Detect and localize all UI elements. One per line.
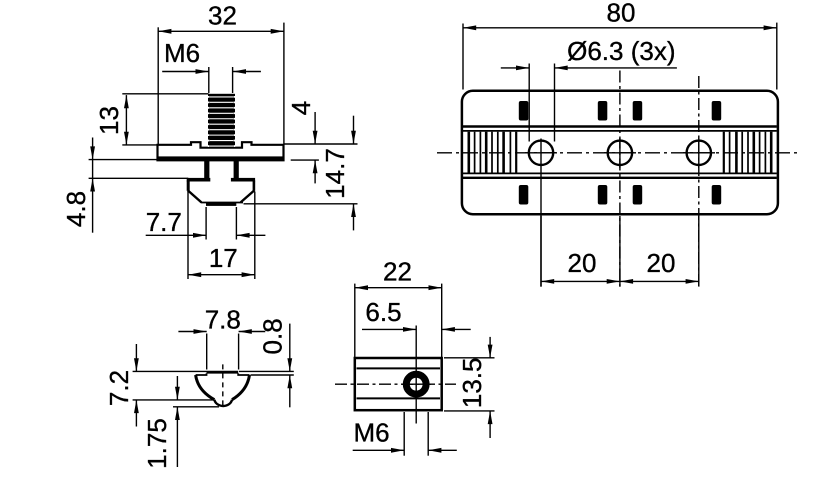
dim 6.3 extension lines (hole1 edges)	[528, 64, 530, 142]
dim 0.8 extension line bottom	[251, 374, 294, 376]
neck left thick wall	[204, 160, 209, 182]
inner chamfer line bottom	[357, 397, 441, 399]
dim 7.2/1.75 extension line (ball top)	[133, 399, 215, 401]
dim 20 extension lines	[540, 216, 542, 287]
hole2 vertical solid segment	[619, 138, 621, 168]
leaf left lip	[196, 373, 207, 375]
dim 17 extension lines	[187, 192, 189, 280]
dim 7.7 extension lines	[205, 207, 207, 240]
slot bottom 2	[598, 185, 608, 205]
svg-text:M6: M6	[164, 38, 200, 68]
inner line lower thin	[463, 172, 777, 174]
dim 32 extension lines	[157, 27, 159, 144]
svg-text:0.8: 0.8	[258, 318, 288, 354]
svg-text:7.7: 7.7	[146, 207, 182, 237]
block outline	[355, 358, 442, 410]
horizontal centerline	[437, 152, 797, 154]
hole horizontal crosshair	[402, 383, 431, 385]
thread edge serration right	[233, 96, 235, 147]
svg-text:4: 4	[286, 101, 316, 115]
dim 1.75 extension line bottom	[173, 406, 219, 408]
dim 80 extension lines	[462, 24, 464, 90]
dim M6 extension lines	[403, 412, 405, 456]
svg-text:80: 80	[607, 0, 636, 28]
hole 2	[608, 141, 632, 165]
leaf right lip	[238, 373, 249, 375]
shoulder right thick bar	[231, 178, 255, 182]
dim 32 line	[158, 30, 284, 32]
leaf bottom ball	[214, 400, 232, 406]
svg-text:7.8: 7.8	[205, 305, 241, 335]
dim 7.8 extension lines	[206, 334, 208, 370]
dim 80 line	[463, 27, 777, 29]
slot bottom 4	[712, 185, 722, 205]
hole2 horizontal crosshair	[604, 152, 636, 154]
slot bottom 1	[519, 185, 529, 205]
slot top 3	[633, 101, 643, 121]
shoulder left thick bar	[187, 178, 211, 182]
svg-text:Ø6.3 (3x): Ø6.3 (3x)	[567, 36, 675, 66]
dim M6 line	[162, 71, 209, 73]
dim 0.8 line	[289, 324, 291, 372]
M6 threaded hole ring	[406, 374, 426, 394]
dim 14.7 line	[353, 116, 355, 144]
svg-text:20: 20	[647, 248, 676, 278]
foot bottom thin line	[201, 202, 243, 204]
dim dia 6.3 line	[501, 67, 529, 69]
foot right chamfer	[241, 190, 255, 202]
dim 13 extension line bottom	[122, 144, 157, 146]
inner chamfer line top	[357, 367, 441, 369]
dim 7.8 line	[178, 331, 206, 333]
dim 13.5 line	[489, 337, 491, 358]
thread edge serration left	[208, 96, 210, 147]
svg-text:4.8: 4.8	[61, 191, 91, 227]
dim 20 lines	[541, 280, 699, 282]
foot bottom thick face	[206, 202, 236, 206]
neck right thick wall	[234, 160, 239, 182]
svg-text:32: 32	[208, 1, 237, 31]
dim 22 extension lines	[354, 284, 356, 357]
dim M6 line	[353, 449, 405, 451]
svg-text:7.2: 7.2	[104, 370, 134, 406]
hole 1	[529, 141, 553, 165]
hole1 vertical center line	[540, 139, 542, 287]
dim 7.7 line	[146, 234, 207, 236]
dim 7.2 extension line top	[133, 370, 207, 372]
dim 13 line	[125, 95, 127, 145]
svg-text:20: 20	[568, 248, 597, 278]
svg-text:22: 22	[383, 257, 412, 287]
dim 4.8 extension line top	[89, 159, 161, 161]
dim 14.7 extension line bottom	[244, 203, 358, 205]
inner line upper thick	[463, 125, 777, 127]
dim 4 extension line bottom	[291, 159, 319, 161]
dim 7.2 line	[135, 344, 137, 371]
slot top 2	[598, 101, 608, 121]
hole3 horizontal crosshair	[683, 152, 715, 154]
dim 6.5 line	[362, 328, 416, 330]
hole1 horizontal crosshair	[525, 152, 557, 154]
svg-text:M6: M6	[354, 417, 390, 447]
dim 13.5 extension lines	[444, 357, 495, 359]
dim 17 line	[188, 274, 255, 276]
slot bottom 3	[633, 185, 643, 205]
thread crest lines	[210, 97, 234, 146]
inner line upper thin	[463, 130, 777, 132]
hole2 vertical centerline dash-dot	[619, 71, 621, 287]
leaf left curve	[196, 375, 215, 400]
svg-text:1.75: 1.75	[142, 418, 172, 469]
dim 1.75 line	[176, 376, 178, 400]
hole3 vertical solid segment	[698, 138, 700, 168]
hatch right	[724, 132, 771, 174]
flange bottom thick edge	[157, 156, 285, 160]
svg-text:6.5: 6.5	[365, 297, 401, 327]
dim 4.8 line	[92, 138, 94, 233]
slot top 1	[519, 101, 529, 121]
leaf centerline dashed	[222, 364, 224, 407]
dim 0.8 extension line top	[239, 370, 294, 372]
dim 13 extension line top	[122, 93, 208, 95]
hatch left	[469, 132, 516, 174]
leaf right curve	[232, 375, 250, 400]
inner line lower thick	[463, 177, 777, 179]
svg-text:13.5: 13.5	[457, 357, 487, 408]
foot left chamfer	[188, 190, 202, 202]
flange outline with nubs and recess	[158, 142, 284, 160]
dim M6 extension lines	[208, 67, 210, 93]
hole 3	[687, 141, 711, 165]
slot top 4	[712, 101, 722, 121]
dim 4 line	[314, 112, 316, 144]
dim 4 extension line top	[284, 143, 358, 145]
svg-text:14.7: 14.7	[320, 148, 350, 199]
hole vertical center line	[415, 326, 417, 424]
block outline rounded rect	[462, 91, 778, 214]
horizontal centerline dash-dot	[335, 383, 456, 385]
leaf top bar	[207, 371, 239, 374]
threaded stud body	[208, 94, 235, 148]
foot left edge	[187, 181, 190, 191]
dim 22 line	[355, 287, 442, 289]
foot right edge	[253, 181, 256, 191]
svg-text:17: 17	[209, 243, 238, 273]
svg-text:13: 13	[94, 106, 124, 135]
hole3 vertical centerline dash-dot	[698, 76, 700, 287]
dim 4.8 extension line bottom	[89, 177, 189, 179]
